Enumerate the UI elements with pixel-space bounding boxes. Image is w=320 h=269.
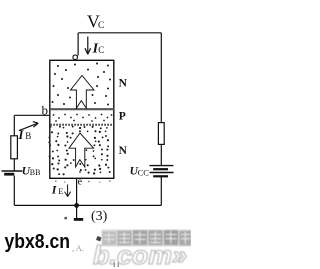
svg-text:I: I xyxy=(17,127,24,142)
svg-text:N: N xyxy=(119,145,128,157)
svg-text:b.com»: b.com» xyxy=(93,240,187,269)
svg-text:CC: CC xyxy=(138,167,150,177)
svg-text:N: N xyxy=(119,77,128,89)
svg-text:C: C xyxy=(98,45,104,55)
svg-text:ybx8.cn: ybx8.cn xyxy=(5,230,71,253)
svg-text:(3): (3) xyxy=(91,209,108,224)
svg-text:I: I xyxy=(51,183,58,197)
svg-text:B: B xyxy=(25,131,31,141)
svg-text:, A.: , A. xyxy=(72,243,84,253)
svg-text:C: C xyxy=(98,21,104,31)
svg-text:E: E xyxy=(58,186,63,196)
svg-text:b: b xyxy=(42,103,49,118)
svg-text:P: P xyxy=(119,110,126,122)
svg-text:e: e xyxy=(78,176,83,187)
svg-text:BB: BB xyxy=(30,168,41,177)
